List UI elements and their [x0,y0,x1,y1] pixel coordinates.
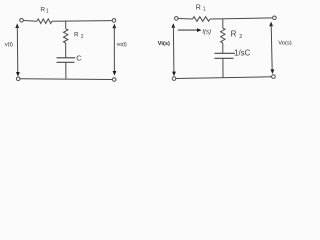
svg-text:1/sC: 1/sC [234,49,251,58]
wire: top-left segment to R1 (right network) [178,18,192,21]
arrow: output voltage polarity arrow (up head) [112,24,116,29]
svg-text:1: 1 [203,7,206,13]
node: output bottom terminal (right network) [272,75,276,79]
wire: middle branch upper lead (right network) [222,19,224,28]
wire: top segment from R1 to output terminal [52,20,112,23]
arrow: Vo(s) polarity arrow (down head) [271,69,275,74]
node: input bottom terminal (left network) [16,77,20,81]
svg-text:Vi(s): Vi(s) [158,41,170,47]
node: input top terminal (left network) [20,19,24,23]
wire: top segment from R1 to output terminal (right network) [210,18,273,19]
svg-text:I(s): I(s) [202,29,211,35]
svg-text:v(t): v(t) [5,42,13,48]
arrow: current I(s) arrowhead [197,28,202,32]
wire: input voltage arrow shaft [16,26,19,74]
capacitor 1/sC top plate [214,52,235,54]
wire: Vi(s) arrow shaft [172,26,175,74]
capacitor C bottom plate [57,61,75,63]
wire: middle branch lower lead to bottom wire [65,62,67,79]
arrow: input voltage polarity arrow (down head) [16,72,20,77]
svg-text:R: R [196,4,201,11]
arrow: current I(s) arrow shaft [178,29,199,31]
arrow: input voltage polarity arrow (up head) [15,23,19,28]
arrow: Vi(s) polarity arrow (down head) [172,72,176,77]
svg-text:1: 1 [46,9,49,15]
resistor R2 (right network, vertical) [221,28,225,43]
arrow: output voltage polarity arrow (down head) [113,71,117,76]
svg-text:R: R [74,31,79,38]
wire: Vo(s) arrow shaft [271,25,272,72]
resistor R1 (right network) [193,17,210,22]
svg-text:2: 2 [239,34,242,40]
svg-text:2: 2 [81,34,84,40]
resistor R2 (left network, vertical) [63,29,67,43]
resistor R1 (left network) [37,19,52,24]
svg-text:R: R [231,29,237,38]
node: output top terminal (right network) [273,16,277,20]
svg-text:Vo(s): Vo(s) [278,40,292,46]
wire: middle branch between R2 and capacitor [65,43,67,58]
arrow: Vi(s) polarity arrow (up head) [171,23,175,28]
node: output bottom terminal (left network) [112,78,116,82]
node: output top terminal (left network) [112,19,116,23]
wire: output voltage arrow shaft [113,26,115,73]
wire: middle branch between R2 and capacitor (right network) [222,43,224,53]
wire: bottom rail (left network) [20,78,112,81]
capacitor C top plate [57,57,76,59]
node: input top terminal (right network) [175,17,179,21]
svg-text:vo(t): vo(t) [117,42,127,48]
node: input bottom terminal (right network) [172,77,176,81]
wire: middle branch lower lead to bottom rail (right network) [222,58,224,77]
wire: bottom rail (right network) [176,77,272,79]
arrow: Vo(s) polarity arrow (up head) [269,22,273,27]
svg-text:R: R [40,6,45,13]
wire: middle branch upper lead [65,21,67,29]
svg-text:C: C [76,53,82,62]
capacitor 1/sC bottom plate [214,57,233,59]
wire: top-left segment to R1 [23,20,37,23]
